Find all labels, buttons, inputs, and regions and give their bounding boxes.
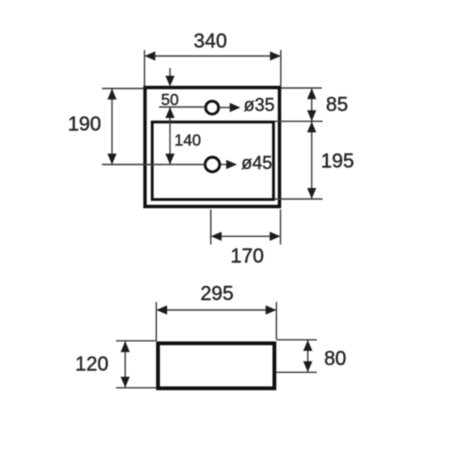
front view rectangle	[158, 343, 274, 388]
dim 80 bottom arrowhead	[303, 361, 312, 372]
dim 170 extension line right	[280, 210, 282, 245]
svg-text:190: 190	[68, 113, 101, 135]
svg-text:ø45: ø45	[241, 153, 272, 173]
drain hole circle ø45	[205, 157, 220, 172]
dim 295 right arrowhead	[266, 305, 277, 314]
dim 140 bottom arrowhead	[165, 154, 174, 165]
svg-text:120: 120	[75, 353, 108, 375]
svg-text:295: 295	[200, 283, 233, 305]
dim 85 dimension line	[311, 89, 313, 121]
dim 340 dimension line	[146, 55, 280, 57]
svg-text:195: 195	[321, 150, 354, 172]
dim 170 dimension line	[212, 235, 279, 237]
dim 170 extension line left (under top view)	[210, 210, 212, 245]
dim 195 dimension line	[311, 122, 313, 199]
top view inner rectangle (bowl)	[152, 122, 273, 200]
dim 120 bottom arrowhead	[121, 377, 130, 388]
dim 50 down arrowhead to top edge	[165, 76, 174, 87]
ø35 arrowhead	[230, 103, 241, 112]
dim 140 top arrowhead	[165, 107, 174, 118]
faucet center leader / 50 underline	[159, 106, 206, 108]
dim 340 extension line right	[280, 50, 282, 86]
dim 295 extension line left	[155, 302, 157, 341]
dim 80 extension line bottom	[277, 371, 317, 373]
dim 120 top arrowhead	[121, 341, 130, 352]
dim 190 dimension line	[111, 89, 113, 164]
dim 80 dimension line	[307, 340, 309, 371]
dim 50 outside arrow line above top edge	[169, 68, 171, 84]
dim 295 extension line right	[275, 302, 277, 340]
ø45 leader arrow line	[220, 164, 229, 166]
svg-text:85: 85	[326, 94, 348, 116]
dim 340 left arrowhead	[145, 51, 156, 60]
svg-text:80: 80	[324, 348, 346, 370]
dim 170 left arrowhead	[211, 232, 222, 241]
dim 120 dimension line	[124, 342, 126, 388]
dim 85/195 shared extension line middle right	[275, 120, 323, 122]
dim 195 bottom arrowhead	[307, 188, 316, 199]
dim 195 top arrowhead	[307, 122, 316, 133]
dim 295 left arrowhead	[156, 305, 167, 314]
svg-text:ø35: ø35	[244, 95, 275, 115]
dim 190 extension line bottom / drain leader line	[102, 164, 206, 166]
dim 140 dimension line	[169, 107, 171, 164]
dim 190 top arrowhead	[107, 89, 116, 100]
dim 170 right arrowhead	[270, 232, 281, 241]
dim 80 top arrowhead	[303, 340, 312, 351]
dim 120 extension line bottom	[116, 387, 156, 389]
dim 190 extension line top	[102, 88, 144, 90]
dim 85 top arrowhead	[307, 88, 316, 99]
dim 295 dimension line	[158, 309, 275, 311]
svg-text:340: 340	[194, 30, 227, 52]
dim 190 bottom arrowhead	[107, 154, 116, 165]
dim 195 extension line bottom right	[275, 198, 323, 200]
ø35 leader arrow line	[219, 107, 232, 109]
dim 340 right arrowhead	[270, 51, 281, 60]
dim 340 extension line left	[144, 50, 146, 86]
faucet hole circle ø35	[206, 101, 219, 114]
top view outer rectangle (basin outline)	[145, 88, 280, 207]
dim 80 extension line top	[277, 339, 317, 341]
svg-text:140: 140	[174, 132, 201, 149]
ø45 arrowhead	[226, 160, 237, 169]
dim 120 extension line top	[116, 340, 156, 342]
dim 85 bottom arrowhead	[307, 110, 316, 121]
dim 85 extension line top right	[281, 87, 322, 89]
svg-text:170: 170	[231, 245, 264, 267]
